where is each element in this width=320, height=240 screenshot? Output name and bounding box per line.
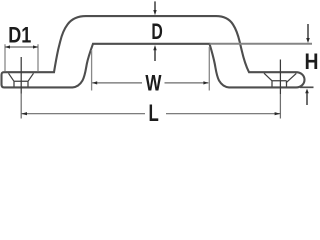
D bottom arrow	[153, 45, 156, 50]
W dimension line	[92, 82, 208, 84]
svg-text:L: L	[148, 100, 158, 127]
D top leader	[154, 1, 156, 10]
D1 extension lines	[5, 44, 38, 71]
svg-text:D: D	[151, 19, 162, 44]
centerline left foot	[20, 57, 22, 94]
countersunk hole right foot	[264, 73, 287, 87]
W arrow left	[92, 81, 97, 84]
centerline right foot	[279, 60, 281, 95]
H top arrow	[306, 38, 310, 43]
handle body outline	[2, 16, 305, 87]
L dimension line	[21, 113, 280, 115]
D1 arrow left	[5, 45, 10, 48]
H bottom leader	[306, 93, 308, 106]
H extension line (inner line extended right)	[210, 43, 313, 45]
rounded end diagonal right foot	[286, 73, 296, 82]
W arrow right	[203, 81, 208, 84]
L arrow right	[275, 112, 281, 115]
base line extension right	[300, 86, 314, 88]
svg-text:H: H	[305, 49, 319, 74]
D bottom leader	[154, 50, 156, 61]
countersunk hole left foot	[9, 73, 34, 86]
svg-text:W: W	[145, 70, 162, 95]
H bottom arrow	[305, 89, 309, 94]
D top arrow	[153, 10, 156, 15]
H top leader	[307, 24, 309, 39]
D1 dimension line	[5, 46, 38, 48]
L arrow left	[21, 112, 27, 115]
D1 arrow right	[33, 45, 38, 48]
W extension lines	[92, 47, 210, 91]
svg-text:D1: D1	[8, 23, 31, 48]
